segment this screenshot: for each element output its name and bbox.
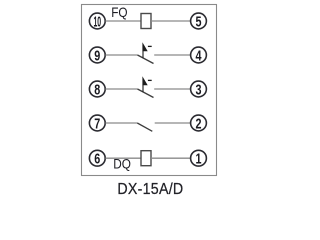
svg-text:6: 6	[94, 150, 100, 167]
svg-text:5: 5	[195, 13, 201, 30]
svg-text:8: 8	[94, 81, 100, 98]
wire coil FQ to 5	[151, 20, 191, 22]
terminal 1	[191, 150, 207, 167]
wire 8 to contact	[105, 88, 137, 90]
terminal 7	[89, 115, 105, 132]
svg-text:4: 4	[195, 47, 202, 64]
wire contact to 4	[154, 54, 190, 56]
terminal 10	[89, 13, 105, 30]
wire coil DQ to 1	[151, 157, 191, 159]
coil DQ	[141, 151, 151, 166]
svg-text:2: 2	[195, 115, 201, 132]
terminal 5	[191, 13, 207, 30]
relay case outline	[82, 5, 217, 176]
svg-text:DQ: DQ	[113, 157, 131, 172]
terminal 8	[89, 81, 105, 98]
svg-text:7: 7	[94, 115, 100, 132]
svg-text:DX-15A/D: DX-15A/D	[117, 180, 183, 198]
contact 9-4 blade	[138, 55, 154, 64]
contact 9-4 arrow	[142, 42, 147, 58]
svg-text:1: 1	[195, 150, 201, 167]
svg-text:10: 10	[93, 14, 101, 31]
wire contact to 3	[154, 88, 190, 90]
wire 9 to contact	[105, 54, 137, 56]
terminal 3	[191, 81, 207, 98]
wire 7 to contact	[105, 122, 137, 124]
terminal 4	[191, 47, 207, 64]
contact 8-3 arrow	[142, 76, 147, 92]
contact 9-4 dash	[148, 45, 152, 47]
terminal 6	[89, 150, 105, 167]
contact 7-2 blade	[137, 123, 152, 131]
svg-text:FQ: FQ	[111, 5, 128, 20]
wire 6 to coil DQ	[105, 157, 141, 159]
terminal 2	[191, 115, 207, 132]
wire 10 to coil FQ	[105, 20, 141, 22]
coil FQ	[141, 14, 151, 29]
contact 8-3 dash	[148, 79, 152, 81]
wire contact to 2	[155, 122, 191, 124]
terminal 9	[89, 47, 105, 64]
contact 8-3 blade	[138, 89, 154, 98]
svg-text:3: 3	[195, 81, 201, 98]
svg-text:9: 9	[94, 47, 100, 64]
